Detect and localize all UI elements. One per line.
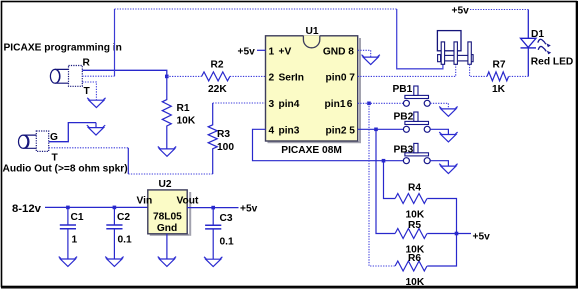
svg-text:7: 7 xyxy=(349,72,355,83)
svg-text:pin4: pin4 xyxy=(279,99,300,110)
svg-text:R3: R3 xyxy=(217,129,230,140)
connector J1 programming jack plug xyxy=(50,66,82,87)
ground for audio G xyxy=(87,125,105,135)
connector CT1 stereo socket xyxy=(437,31,473,65)
wire LED anode drop xyxy=(527,10,529,39)
wire audio T down xyxy=(127,148,129,174)
svg-text:4: 4 xyxy=(269,125,275,136)
svg-text:1: 1 xyxy=(269,46,275,57)
ground below U2 xyxy=(158,257,176,267)
svg-text:1: 1 xyxy=(72,235,78,246)
wire audio T xyxy=(49,147,129,149)
ground below R1 xyxy=(158,147,176,157)
resistor R6 xyxy=(395,253,427,288)
capacitor C2 xyxy=(106,207,122,259)
svg-text:pin0: pin0 xyxy=(326,72,347,83)
wire pin3 (leg4) under chip to PB3 row xyxy=(253,129,384,160)
wire input rail xyxy=(45,206,148,208)
svg-text:R4: R4 xyxy=(408,182,421,193)
svg-text:22K: 22K xyxy=(208,84,227,95)
wire jack sleeve to ground xyxy=(82,82,96,100)
wire socket pin C to R7 xyxy=(470,64,487,76)
wire U2 gnd to ground xyxy=(166,234,168,259)
wire pin2 (leg5) row to PB2 xyxy=(358,128,404,130)
node junction pin1/R6 xyxy=(367,102,371,106)
wire PB3 row junction to PB3 xyxy=(384,160,404,162)
svg-text:PICAXE 08M: PICAXE 08M xyxy=(281,145,342,156)
wire LED cathode to R7 level xyxy=(527,48,529,77)
ground below C2 xyxy=(105,257,123,267)
capacitor C1 xyxy=(60,207,76,259)
svg-text:+5v: +5v xyxy=(452,6,470,17)
wire GND pin8 to ground xyxy=(358,50,371,57)
svg-text:PICAXE programming in: PICAXE programming in xyxy=(4,42,122,53)
wire top rail drop to socket pin A xyxy=(397,9,443,69)
svg-text:U1: U1 xyxy=(306,26,319,37)
svg-text:10K: 10K xyxy=(406,210,425,221)
wire pin1 (leg6) row to PB1 xyxy=(358,102,404,104)
svg-text:PB2: PB2 xyxy=(394,112,414,123)
wire jack R to junction xyxy=(82,70,167,76)
wire top rail xyxy=(115,8,397,10)
svg-text:78L05: 78L05 xyxy=(153,211,182,222)
svg-text:1K: 1K xyxy=(492,84,506,95)
svg-text:GND: GND xyxy=(323,46,346,57)
wire jack middle contact to +5v riser xyxy=(82,75,114,77)
svg-text:+V: +V xyxy=(279,46,292,57)
wire R3 top to pin4 xyxy=(213,102,266,104)
resistor R7 xyxy=(487,60,509,96)
wire PB3 to ground xyxy=(430,161,448,166)
svg-text:10K: 10K xyxy=(177,116,196,127)
wire R4 right to bus xyxy=(427,199,456,267)
svg-text:R5: R5 xyxy=(408,220,421,231)
ground below C1 xyxy=(59,257,77,267)
svg-text:10K: 10K xyxy=(406,277,425,288)
pushbutton PB3 xyxy=(403,143,430,163)
svg-text:+5v: +5v xyxy=(240,204,258,215)
svg-text:U2: U2 xyxy=(159,179,172,190)
svg-text:D1: D1 xyxy=(531,29,544,40)
svg-text:Red LED: Red LED xyxy=(531,57,573,68)
svg-text:Audio Out (>=8 ohm spkr): Audio Out (>=8 ohm spkr) xyxy=(3,164,128,175)
svg-text:8: 8 xyxy=(348,46,354,57)
svg-text:0.1: 0.1 xyxy=(220,237,234,248)
wire riser x115 xyxy=(114,9,116,76)
wire +5v stub to pin1 xyxy=(257,49,266,51)
svg-text:PB3: PB3 xyxy=(394,144,414,155)
svg-text:100: 100 xyxy=(217,142,234,153)
connector J2 audio out jack plug xyxy=(19,131,49,151)
svg-text:PB1: PB1 xyxy=(393,84,413,95)
LED light arrows xyxy=(538,39,546,51)
wire audio link to R3 xyxy=(128,173,212,175)
svg-text:T: T xyxy=(84,86,91,97)
node junction C2 xyxy=(113,206,117,210)
wire PB1 junction down to R6 xyxy=(369,103,395,266)
svg-text:6: 6 xyxy=(347,99,353,110)
node junction C3 xyxy=(211,206,215,210)
pushbutton PB1 xyxy=(403,86,430,106)
wire audio G to ground xyxy=(49,123,96,142)
svg-text:Gnd: Gnd xyxy=(157,223,177,234)
ground at pin 8 xyxy=(362,55,380,65)
resistor R1 xyxy=(162,76,196,148)
wire PB3 junction down to R4 xyxy=(384,161,396,199)
svg-text:R6: R6 xyxy=(408,253,421,264)
resistor R4 xyxy=(395,182,427,220)
ground below programming jack xyxy=(87,98,105,108)
ground at PB2 xyxy=(439,132,457,142)
ground at PB1 xyxy=(439,107,457,117)
wire R5 right to bus and +5v xyxy=(427,233,471,235)
svg-text:pin1: pin1 xyxy=(325,99,346,110)
svg-text:5: 5 xyxy=(349,125,355,136)
wire pin0 row to socket pin B xyxy=(358,64,456,76)
wire Vout to +5v xyxy=(187,207,238,209)
svg-text:3: 3 xyxy=(269,99,275,110)
LED D1 xyxy=(521,29,574,68)
svg-text:2: 2 xyxy=(269,72,275,83)
node junction R5/+5v xyxy=(455,232,459,236)
node junction C1 xyxy=(66,206,70,210)
IC U1 PICAXE 08M xyxy=(266,26,362,156)
svg-text:+5v: +5v xyxy=(473,232,491,243)
svg-text:C3: C3 xyxy=(220,213,233,224)
wire PB2 to ground xyxy=(430,129,448,134)
wire R7 to LED foot xyxy=(509,75,528,77)
svg-text:0.1: 0.1 xyxy=(118,235,132,246)
svg-text:C1: C1 xyxy=(71,212,84,223)
resistor R5 xyxy=(395,220,427,255)
wire PB2 junction down to R5 xyxy=(376,129,395,233)
pushbutton PB2 xyxy=(403,112,430,132)
svg-text:R: R xyxy=(83,58,91,69)
svg-text:pin2: pin2 xyxy=(326,125,347,136)
node junction pin3/R4 on PB3 row xyxy=(382,159,386,163)
svg-text:pin3: pin3 xyxy=(279,125,300,136)
svg-text:+5v: +5v xyxy=(238,46,256,57)
node A junction R1/R2/jack xyxy=(165,75,169,79)
ground at PB3 xyxy=(439,164,457,174)
svg-text:8-12v: 8-12v xyxy=(12,203,42,215)
ground below C3 xyxy=(204,257,222,267)
svg-text:R1: R1 xyxy=(177,103,190,114)
svg-text:T: T xyxy=(52,152,59,163)
svg-text:R7: R7 xyxy=(493,60,506,71)
wire PB1 to ground xyxy=(430,103,448,108)
node junction pin2/R5 xyxy=(374,128,378,132)
svg-text:SerIn: SerIn xyxy=(279,72,304,83)
resistor R2 xyxy=(167,60,266,96)
svg-text:R2: R2 xyxy=(211,60,224,71)
wire +5v to LED xyxy=(470,9,528,11)
svg-text:Vout: Vout xyxy=(177,196,199,207)
svg-text:C2: C2 xyxy=(117,212,130,223)
svg-text:Vin: Vin xyxy=(137,196,153,207)
regulator U2 78L05 xyxy=(137,179,199,236)
resistor R3 xyxy=(208,103,234,174)
capacitor C3 xyxy=(205,208,221,260)
